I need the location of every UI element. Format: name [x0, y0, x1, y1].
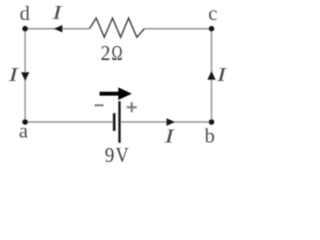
wire left segment from node d to node a	[24, 29, 26, 122]
svg-text:d: d	[20, 3, 30, 25]
wire bottom segment from battery positive plate to node b	[121, 121, 212, 123]
svg-text:Ω: Ω	[112, 41, 123, 65]
current arrowhead on left wire pointing down	[21, 72, 29, 81]
node a junction dot	[22, 119, 28, 125]
current arrowhead on right wire pointing up	[207, 71, 215, 80]
battery B1 positive plate (long)	[118, 101, 120, 143]
battery B1 negative plate (short)	[113, 113, 116, 131]
svg-text:c: c	[208, 3, 217, 25]
battery minus sign	[95, 104, 104, 106]
wire top segment from resistor to node c	[144, 28, 211, 30]
current arrowhead on bottom wire pointing right	[167, 118, 176, 126]
battery plus sign	[127, 102, 137, 112]
resistor 2-ohm zigzag	[90, 18, 145, 37]
svg-text:V: V	[116, 143, 129, 167]
current arrowhead on top wire pointing left	[54, 25, 63, 32]
svg-text:I: I	[163, 125, 175, 147]
wire right segment from node c to node b	[211, 29, 213, 122]
emf direction thick arrow above battery	[100, 87, 132, 100]
svg-text:b: b	[205, 126, 215, 148]
svg-text:a: a	[19, 121, 28, 143]
wire top segment from node d to resistor	[25, 28, 89, 30]
svg-text:I: I	[216, 64, 228, 86]
svg-text:I: I	[51, 2, 63, 24]
svg-text:9: 9	[105, 143, 115, 167]
svg-text:2: 2	[101, 41, 111, 65]
node c junction dot	[209, 26, 215, 32]
svg-text:I: I	[7, 64, 19, 86]
node b junction dot	[209, 119, 215, 125]
wire bottom segment from node a to battery negative plate	[25, 121, 113, 123]
node d junction dot	[22, 26, 28, 32]
